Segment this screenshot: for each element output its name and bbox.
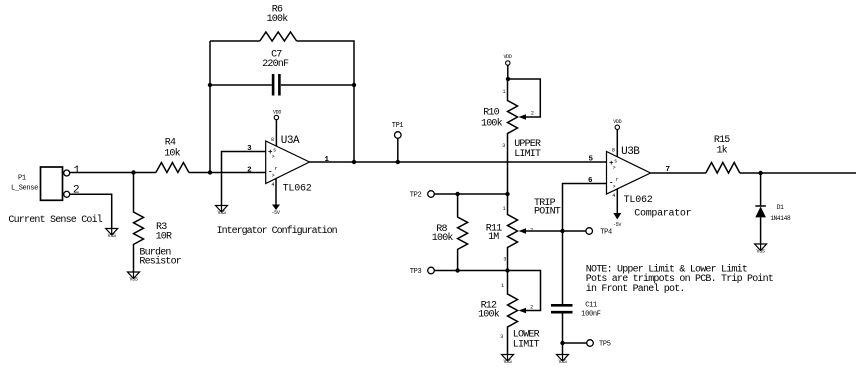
svg-text:>: > <box>613 184 616 190</box>
ground below C11 <box>557 355 569 366</box>
svg-text:in Front Panel pot.: in Front Panel pot. <box>586 283 685 295</box>
svg-text:1: 1 <box>74 165 81 177</box>
ground below U3A pin3 <box>216 206 228 217</box>
svg-text:>: > <box>272 154 275 160</box>
junction node P1/R3/R4 <box>131 170 135 174</box>
junction node R8 top <box>455 192 459 196</box>
power VDD U3A <box>273 110 281 147</box>
junction node R11/R12 <box>505 268 509 272</box>
junction node TP1 <box>396 160 400 164</box>
svg-text:TP1: TP1 <box>392 122 404 130</box>
svg-text:s: s <box>614 159 617 165</box>
svg-text:LIMIT: LIMIT <box>514 149 541 160</box>
test point TP5 <box>563 340 611 349</box>
test point TP4 <box>563 228 613 237</box>
wire C7 rail right <box>281 84 354 86</box>
svg-text:220nF: 220nF <box>262 59 289 70</box>
junction node C11/TP5/ground <box>560 341 564 345</box>
svg-text:1N4148: 1N4148 <box>770 215 791 222</box>
wire feedback left vertical <box>209 41 211 173</box>
svg-text:2: 2 <box>530 227 533 233</box>
power -5V U3A <box>271 178 280 216</box>
svg-text:-5V: -5V <box>271 210 279 216</box>
svg-text:100nF: 100nF <box>581 311 600 319</box>
resistor R8 <box>432 194 468 271</box>
svg-text:3: 3 <box>502 143 505 149</box>
svg-text:VSS: VSS <box>558 359 566 365</box>
ground below R3 <box>128 272 140 283</box>
resistor R15 <box>706 135 740 173</box>
svg-text:U3B: U3B <box>621 146 640 158</box>
test point TP1 <box>392 122 404 162</box>
wire U3B output to R15 <box>651 172 706 174</box>
junction node R4/U3A pin2/feedback <box>208 170 212 174</box>
wire P1 pin2 <box>70 194 112 228</box>
resistor R6 <box>260 5 297 42</box>
svg-text:1: 1 <box>503 89 506 95</box>
wire wiper node to C11 <box>562 231 564 304</box>
note text <box>586 263 773 294</box>
wire U3B pin6 to wiper node <box>563 184 607 232</box>
wire P1 pin1 to R4 <box>70 172 156 174</box>
op-amp U3A <box>266 135 312 195</box>
junction node C7 left <box>208 83 212 87</box>
test point TP2 <box>410 191 508 200</box>
svg-text:TL062: TL062 <box>624 195 653 206</box>
svg-text:Resistor: Resistor <box>139 255 181 267</box>
capacitor C7 <box>262 50 289 96</box>
svg-text:-5V: -5V <box>613 222 621 228</box>
svg-text:>: > <box>613 165 616 171</box>
diode D1 <box>755 173 791 244</box>
svg-text:2: 2 <box>531 111 534 117</box>
svg-text:1: 1 <box>501 283 504 289</box>
svg-text:VDD: VDD <box>273 110 281 116</box>
svg-text:1: 1 <box>503 206 506 212</box>
svg-text:Intergator Configuration: Intergator Configuration <box>217 225 338 237</box>
wire C7 rail left <box>210 84 272 86</box>
svg-text:TL062: TL062 <box>283 184 312 195</box>
junction node R8 bottom <box>455 268 459 272</box>
test point TP3 <box>410 267 508 276</box>
junction node R15/D1 <box>758 171 762 175</box>
svg-text:POINT: POINT <box>534 207 561 218</box>
junction node R10/R11 <box>505 192 509 196</box>
power VDD U3B <box>613 119 621 157</box>
svg-text:100k: 100k <box>267 13 289 25</box>
power -5V U3B <box>613 189 621 228</box>
wire top rail right <box>297 41 354 162</box>
svg-text:3: 3 <box>503 257 506 263</box>
op-amp U3B <box>607 146 653 206</box>
junction node C7 right <box>352 83 356 87</box>
wire U3A output rail to U3B pin5 <box>310 161 607 163</box>
connector P1 <box>41 167 70 200</box>
svg-text:L_Sense: L_Sense <box>11 184 38 192</box>
svg-text:4: 4 <box>612 193 615 199</box>
svg-text:VSS: VSS <box>503 359 511 365</box>
svg-text:R10: R10 <box>483 108 499 119</box>
potentiometer R12 <box>478 271 540 355</box>
wire C11 to ground <box>562 314 564 355</box>
svg-text:R4: R4 <box>165 138 176 149</box>
svg-text:VSS: VSS <box>108 233 116 239</box>
power VDD R10 <box>503 54 511 79</box>
svg-text:VDD: VDD <box>613 119 621 125</box>
svg-text:VSS: VSS <box>757 249 765 255</box>
ground below R12 <box>502 355 514 366</box>
svg-text:r: r <box>616 177 619 183</box>
wire R15 to right edge <box>740 172 856 174</box>
svg-text:VSS: VSS <box>217 210 225 216</box>
svg-text:100k: 100k <box>481 118 503 130</box>
junction node wiper/pin6/TP4 <box>560 229 564 233</box>
svg-text:100k: 100k <box>432 232 454 244</box>
svg-text:LIMIT: LIMIT <box>513 339 540 350</box>
svg-text:Current Sense Coil: Current Sense Coil <box>8 214 102 226</box>
svg-text:1M: 1M <box>488 232 499 243</box>
ground below D1 <box>755 244 767 255</box>
svg-text:100k: 100k <box>478 308 500 320</box>
capacitor C11 <box>551 302 601 319</box>
resistor R3 <box>134 173 173 273</box>
svg-text:10R: 10R <box>156 232 172 243</box>
svg-text:1k: 1k <box>716 144 727 156</box>
svg-text:C11: C11 <box>585 302 597 310</box>
svg-text:8: 8 <box>271 137 274 143</box>
potentiometer R11 <box>486 194 563 271</box>
resistor R4 <box>156 138 189 173</box>
svg-text:r: r <box>275 166 278 172</box>
svg-text:TP5: TP5 <box>599 340 611 348</box>
svg-text:s: s <box>273 148 276 154</box>
svg-text:VSS: VSS <box>129 277 137 283</box>
potentiometer R10 <box>481 79 540 194</box>
svg-text:TP2: TP2 <box>410 191 422 199</box>
junction node R10 wiper loop <box>506 77 510 81</box>
svg-text:10k: 10k <box>164 148 180 160</box>
svg-text:P1: P1 <box>18 175 26 183</box>
svg-text:TP4: TP4 <box>600 228 612 236</box>
wire U3A pin3 to ground <box>222 152 266 206</box>
svg-text:TP3: TP3 <box>410 268 422 276</box>
ground below P1 pin2 <box>106 229 118 240</box>
junction node feedback/output <box>352 160 356 164</box>
svg-text:D1: D1 <box>777 204 784 211</box>
svg-text:2: 2 <box>530 304 533 310</box>
svg-text:VDD: VDD <box>503 54 511 60</box>
svg-text:3: 3 <box>500 334 503 340</box>
wire R4 to U3A pin2 <box>189 172 266 174</box>
svg-text:Comparator: Comparator <box>634 209 691 220</box>
svg-text:4: 4 <box>271 182 274 188</box>
svg-text:U3A: U3A <box>281 135 300 147</box>
svg-text:8: 8 <box>612 148 615 154</box>
wire top rail left <box>210 40 260 42</box>
svg-text:>: > <box>272 173 275 179</box>
